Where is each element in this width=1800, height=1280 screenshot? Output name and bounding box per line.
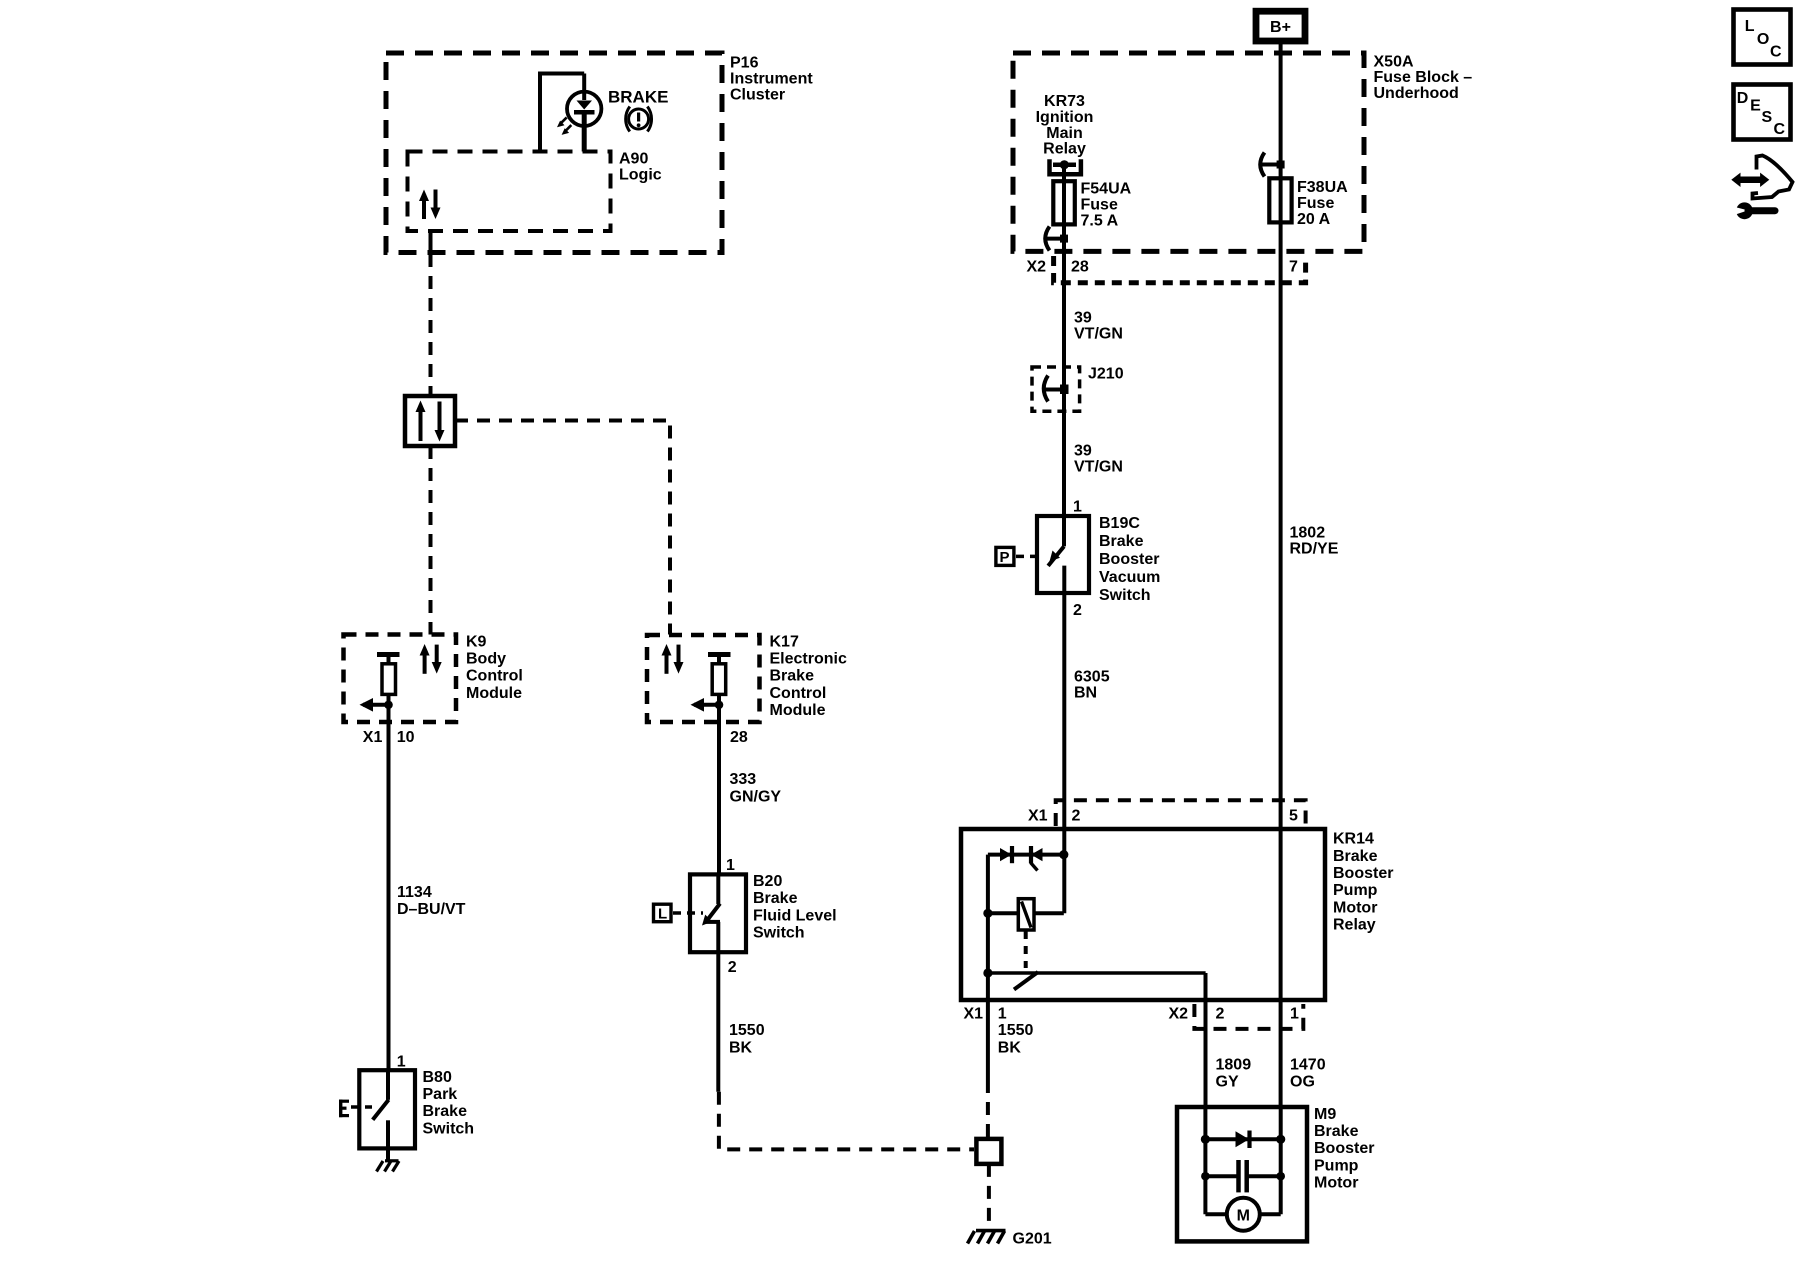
actuator P symbol — [996, 547, 1037, 566]
svg-text:L: L — [1745, 18, 1755, 35]
svg-text:Brake: Brake — [770, 668, 815, 685]
svg-text:Fuse: Fuse — [1297, 195, 1334, 212]
svg-text:D: D — [1737, 90, 1749, 107]
KR14 linkage dashed — [1024, 931, 1028, 968]
label X2 2 1 bottom of relay — [1169, 1006, 1300, 1023]
svg-text:B20: B20 — [753, 873, 782, 890]
label 333 GN/GY — [730, 771, 782, 805]
svg-text:K17: K17 — [770, 633, 799, 650]
label X50A Fuse Block Underhood — [1374, 53, 1473, 102]
svg-text:RD/YE: RD/YE — [1290, 541, 1339, 558]
svg-text:Booster: Booster — [1099, 551, 1159, 568]
svg-text:Fuse: Fuse — [1081, 197, 1118, 214]
svg-text:Motor: Motor — [1314, 1175, 1358, 1192]
svg-text:Ignition: Ignition — [1036, 109, 1094, 126]
svg-text:Fuse Block –: Fuse Block – — [1374, 69, 1473, 86]
label 39 VT/GN upper — [1074, 310, 1123, 343]
svg-text:Electronic: Electronic — [770, 651, 847, 668]
svg-text:M9: M9 — [1314, 1106, 1336, 1123]
label B80 Park Brake Switch — [423, 1069, 475, 1138]
svg-text:10: 10 — [397, 729, 415, 746]
svg-text:B19C: B19C — [1099, 515, 1140, 532]
K17 electronic brake control module box — [647, 635, 760, 722]
label 1809 GY — [1216, 1056, 1252, 1090]
svg-text:28: 28 — [730, 729, 748, 746]
splice pack J210 box — [1032, 367, 1080, 411]
svg-text:Booster: Booster — [1333, 865, 1393, 882]
K17 comm arrows — [662, 644, 684, 674]
svg-text:1550: 1550 — [729, 1022, 765, 1039]
label pin 2 B19C — [1073, 602, 1082, 619]
svg-text:P16: P16 — [730, 55, 759, 72]
B80 switch — [373, 1070, 389, 1148]
dashed wire serial data box to K17 — [455, 421, 670, 635]
M9 motor — [1205, 1198, 1280, 1231]
svg-text:1809: 1809 — [1216, 1056, 1252, 1073]
label pin 1 B19C — [1073, 499, 1082, 516]
splice S-box — [976, 1139, 1001, 1164]
svg-text:Switch: Switch — [753, 925, 805, 942]
K9 body control module box — [344, 635, 457, 723]
svg-text:39: 39 — [1074, 443, 1092, 460]
label X1 1 1550 BK bottom of relay — [964, 1006, 1034, 1057]
B20 switch — [702, 874, 720, 951]
M9 capacitor — [1201, 1160, 1285, 1192]
brake booster pump motor M9 box — [1177, 1107, 1307, 1241]
label M9 Brake Booster Pump Motor — [1314, 1106, 1374, 1192]
wire 333 — [717, 694, 721, 874]
svg-text:BN: BN — [1074, 685, 1097, 702]
svg-text:Underhood: Underhood — [1374, 85, 1459, 102]
label pin 28 — [730, 729, 748, 746]
connector clip at X50A pin 7 — [1260, 153, 1285, 177]
ground G201 — [968, 1231, 1006, 1244]
svg-text:Brake: Brake — [423, 1103, 468, 1120]
svg-text:Switch: Switch — [1099, 587, 1151, 604]
svg-text:Brake: Brake — [1314, 1123, 1359, 1140]
brake booster pump motor relay KR14 box — [961, 829, 1325, 1000]
connector X1 of KR14 dashed outline — [1056, 800, 1306, 826]
svg-text:O: O — [1757, 31, 1769, 48]
svg-text:20 A: 20 A — [1297, 211, 1331, 228]
svg-text:VT/GN: VT/GN — [1074, 326, 1123, 343]
actuator E symbol — [339, 1100, 372, 1118]
svg-text:D–BU/VT: D–BU/VT — [397, 901, 466, 918]
svg-text:OG: OG — [1290, 1074, 1315, 1091]
svg-text:1: 1 — [397, 1053, 406, 1070]
connector X2 of X50A dashed outline — [1054, 256, 1306, 283]
svg-text:Control: Control — [466, 668, 523, 685]
svg-text:1: 1 — [1290, 1006, 1299, 1023]
wire lamp loop — [540, 74, 584, 152]
svg-text:A90: A90 — [619, 151, 648, 168]
label P16 Instrument Cluster — [730, 55, 813, 104]
svg-text:1: 1 — [1073, 499, 1082, 516]
icon wrench — [1731, 202, 1775, 219]
svg-text:Main: Main — [1046, 125, 1082, 142]
label G201 — [1013, 1231, 1052, 1248]
label B20 Brake Fluid Level Switch — [753, 873, 837, 942]
M9 suppression diode — [1201, 1131, 1285, 1149]
A90 internal arrows — [419, 190, 441, 220]
svg-text:Module: Module — [466, 685, 522, 702]
svg-text:Fluid Level: Fluid Level — [753, 907, 837, 924]
svg-text:6305: 6305 — [1074, 669, 1110, 686]
dashed wire splice to ground — [987, 1164, 991, 1228]
wire relay X1-1 1550 BK — [986, 973, 990, 1139]
B20 brake fluid level switch box — [690, 874, 746, 952]
wire 1134 — [387, 694, 391, 1071]
A90 logic box — [408, 152, 611, 232]
svg-text:Body: Body — [466, 651, 506, 668]
svg-text:1550: 1550 — [998, 1022, 1034, 1039]
svg-text:GY: GY — [1216, 1074, 1239, 1091]
svg-text:K9: K9 — [466, 633, 487, 650]
label K17 Electronic Brake Control Module — [770, 633, 847, 719]
B19C switch — [1048, 546, 1064, 566]
svg-text:Park: Park — [423, 1086, 458, 1103]
svg-text:F38UA: F38UA — [1297, 179, 1348, 196]
KR73 relay contact — [1050, 159, 1081, 174]
label 1134 D-BU/VT — [397, 884, 466, 918]
svg-text:B80: B80 — [423, 1069, 452, 1086]
svg-text:2: 2 — [728, 959, 737, 976]
svg-text:Logic: Logic — [619, 166, 662, 183]
wire 39 VT/GN — [1062, 165, 1066, 914]
svg-text:BRAKE: BRAKE — [608, 88, 668, 107]
svg-text:Brake: Brake — [1333, 848, 1378, 865]
svg-text:X1: X1 — [1028, 808, 1048, 825]
svg-text:GN/GY: GN/GY — [730, 788, 782, 805]
svg-text:X1: X1 — [363, 729, 383, 746]
M9 internal wires — [1205, 1107, 1280, 1214]
svg-text:1470: 1470 — [1290, 1056, 1326, 1073]
svg-text:BK: BK — [998, 1039, 1022, 1056]
svg-text:Brake: Brake — [1099, 533, 1144, 550]
svg-text:2: 2 — [1216, 1006, 1225, 1023]
svg-text:X2: X2 — [1027, 259, 1047, 276]
battery B+ symbol — [1256, 11, 1305, 41]
label pin 1 B20 — [726, 857, 735, 874]
fuse block X50A box — [1013, 53, 1364, 251]
label X1 10 — [363, 729, 415, 746]
label X1 2 5 top of relay — [1028, 808, 1298, 825]
wire 1809 GY — [1204, 973, 1208, 1107]
label A90 Logic — [619, 151, 662, 184]
svg-text:1802: 1802 — [1290, 525, 1326, 542]
label pin 1 B80 — [397, 1053, 406, 1070]
svg-text:C: C — [1774, 121, 1786, 138]
svg-text:1: 1 — [726, 857, 735, 874]
svg-text:Pump: Pump — [1314, 1157, 1359, 1174]
label KR73 Ignition Main Relay — [1036, 93, 1094, 158]
K9 internal arrow to other circuits — [360, 698, 393, 712]
label F38UA Fuse 20 A — [1297, 179, 1348, 228]
J210 clip — [1044, 376, 1069, 402]
svg-text:X1: X1 — [964, 1006, 984, 1023]
svg-text:28: 28 — [1071, 259, 1089, 276]
svg-text:Switch: Switch — [423, 1120, 475, 1137]
label 6305 BN — [1074, 669, 1110, 702]
label 39 VT/GN lower — [1074, 443, 1123, 476]
svg-text:5: 5 — [1289, 808, 1298, 825]
svg-text:Relay: Relay — [1043, 141, 1086, 158]
dashed wire serial data box to K9 — [429, 446, 433, 635]
svg-text:G201: G201 — [1013, 1231, 1052, 1248]
svg-text:Control: Control — [770, 685, 827, 702]
brake warning symbol — [626, 107, 652, 132]
wire 1550 left — [718, 952, 974, 1150]
icon jump arrow — [1731, 156, 1792, 199]
svg-text:F54UA: F54UA — [1081, 181, 1132, 198]
K9 internal supply element — [377, 655, 400, 695]
svg-text:Vacuum: Vacuum — [1099, 569, 1160, 586]
svg-text:Module: Module — [770, 702, 826, 719]
svg-text:J210: J210 — [1088, 366, 1124, 383]
svg-text:KR73: KR73 — [1044, 93, 1085, 110]
KR14 coil suppression arrows — [988, 846, 1069, 871]
svg-text:C: C — [1770, 43, 1782, 60]
svg-text:Relay: Relay — [1333, 917, 1376, 934]
label KR14 Brake Booster Pump Motor Relay — [1333, 831, 1393, 934]
KR14 coil — [983, 855, 1064, 975]
svg-text:KR14: KR14 — [1333, 831, 1374, 848]
svg-text:Cluster: Cluster — [730, 86, 785, 103]
svg-text:B+: B+ — [1270, 19, 1291, 36]
svg-text:Booster: Booster — [1314, 1140, 1374, 1157]
brake booster vacuum switch B19C box — [1037, 516, 1089, 593]
svg-text:333: 333 — [730, 771, 757, 788]
svg-text:S: S — [1762, 109, 1773, 126]
label B19C Brake Booster Vacuum Switch — [1099, 515, 1160, 604]
label K9 Body Control Module — [466, 633, 523, 702]
svg-text:M: M — [1237, 1207, 1250, 1224]
label pin 2 B20 — [728, 959, 737, 976]
instrument cluster P16 box — [386, 53, 722, 253]
KR14 switch contact — [983, 968, 1205, 989]
svg-text:1134: 1134 — [397, 884, 432, 901]
label X2 28 7 — [1027, 259, 1299, 276]
svg-text:X2: X2 — [1169, 1006, 1189, 1023]
label F54UA Fuse 7.5 A — [1081, 181, 1132, 230]
svg-text:7: 7 — [1289, 259, 1298, 276]
K17 internal arrow to other circuits — [691, 698, 724, 712]
svg-text:BK: BK — [729, 1039, 753, 1056]
B80 park brake switch box — [359, 1070, 415, 1148]
wire B+ feed 1802 RD/YE 1470 OG — [1279, 44, 1283, 1107]
svg-text:1: 1 — [998, 1006, 1007, 1023]
svg-text:39: 39 — [1074, 310, 1092, 327]
svg-text:Instrument: Instrument — [730, 70, 813, 87]
label J210 — [1088, 366, 1124, 383]
label 1550 BK left — [729, 1022, 765, 1056]
fuse F54UA — [1053, 181, 1075, 224]
svg-text:P: P — [1000, 549, 1010, 566]
K9 comm arrows — [420, 644, 442, 674]
svg-text:X50A: X50A — [1374, 53, 1414, 70]
svg-text:Brake: Brake — [753, 890, 798, 907]
connector X2 of KR14 dashed outline — [1194, 1004, 1303, 1029]
ground below B80 — [377, 1148, 400, 1171]
svg-text:2: 2 — [1072, 808, 1081, 825]
wire A90 to serial data box — [429, 231, 433, 396]
label BRAKE — [608, 88, 668, 107]
brake indicator lamp — [557, 92, 601, 135]
svg-text:E: E — [1750, 98, 1761, 115]
label 1802 RD/YE — [1290, 525, 1339, 558]
svg-text:7.5 A: 7.5 A — [1081, 212, 1119, 229]
fuse F38UA — [1269, 178, 1291, 222]
serial data arrows box — [405, 396, 455, 446]
icon DESC box — [1734, 85, 1791, 140]
icon LOC box — [1734, 10, 1791, 65]
label 1470 OG — [1290, 1056, 1326, 1090]
actuator L symbol — [654, 904, 704, 922]
K17 internal supply element — [708, 655, 731, 695]
connector clip at X50A pin 28 — [1044, 227, 1068, 251]
svg-text:Pump: Pump — [1333, 882, 1378, 899]
svg-text:2: 2 — [1073, 602, 1082, 619]
svg-text:L: L — [658, 905, 667, 922]
svg-text:VT/GN: VT/GN — [1074, 459, 1123, 476]
svg-text:Motor: Motor — [1333, 899, 1377, 916]
